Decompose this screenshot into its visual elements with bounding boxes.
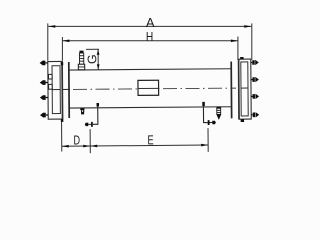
arrow H left xyxy=(62,40,69,43)
left bolt 3 xyxy=(40,95,48,100)
right bolt 1 xyxy=(251,60,259,65)
dimension D xyxy=(62,121,91,153)
right bolt 3 xyxy=(251,94,259,99)
dimension G xyxy=(86,49,99,70)
left drain stub xyxy=(88,123,91,125)
arrow A left xyxy=(48,25,55,28)
svg-text:D: D xyxy=(73,132,80,147)
left bolt 4 xyxy=(40,112,48,117)
arrow G bottom xyxy=(97,64,100,69)
left bolt block 2 xyxy=(49,84,53,89)
left bolt 2 xyxy=(40,80,48,85)
right cover xyxy=(239,59,252,119)
left drain end plug xyxy=(85,123,89,126)
right cover bottom tick xyxy=(241,119,244,122)
arrow G top xyxy=(97,50,100,55)
left cover bottom tick xyxy=(61,119,64,122)
dimension E xyxy=(90,128,208,153)
shell top xyxy=(69,69,231,70)
svg-text:H: H xyxy=(146,30,153,44)
left cover inner rect xyxy=(52,66,60,114)
left cover top tick xyxy=(61,62,64,65)
right tubesheet xyxy=(230,62,232,119)
left cover xyxy=(48,61,63,119)
shell bottom xyxy=(69,107,231,108)
arrow A right xyxy=(244,25,251,28)
top stud xyxy=(78,51,85,70)
left drain elbow pipe xyxy=(93,106,98,124)
right bolt 2 xyxy=(251,77,259,82)
nameplate centerline xyxy=(138,87,159,89)
arrow H right xyxy=(231,40,238,43)
right drain elbow pipe xyxy=(203,106,207,123)
right drain stub xyxy=(210,122,213,124)
svg-text:E: E xyxy=(147,132,154,147)
left cover face line xyxy=(61,61,63,119)
left bolt 1 xyxy=(40,60,48,65)
left cover divider xyxy=(52,89,60,91)
arrow E left xyxy=(90,145,97,148)
right cover inner rect xyxy=(241,62,248,116)
dimension A xyxy=(48,23,252,61)
right bolt 4 xyxy=(251,112,259,117)
left drain elbow fitting xyxy=(97,103,100,107)
right drain end plug xyxy=(212,121,216,124)
left drain nut xyxy=(91,122,93,127)
left bolt block 1 xyxy=(48,74,52,79)
arrow E right xyxy=(201,144,208,147)
left tubesheet xyxy=(68,62,70,118)
right cover top tick xyxy=(240,57,243,59)
right drain elbow fitting xyxy=(202,102,205,106)
dimension H xyxy=(62,37,238,61)
arrow D right xyxy=(83,145,90,148)
right cover face line xyxy=(238,59,240,119)
nameplate xyxy=(138,80,159,95)
arrow D left xyxy=(62,145,69,148)
left drain plug xyxy=(80,108,84,114)
right drain nut xyxy=(208,120,210,125)
centerline xyxy=(51,89,60,91)
svg-text:G: G xyxy=(85,54,99,64)
right cover divider xyxy=(241,87,248,89)
right bottom plug xyxy=(216,107,221,120)
svg-text:A: A xyxy=(146,16,155,30)
